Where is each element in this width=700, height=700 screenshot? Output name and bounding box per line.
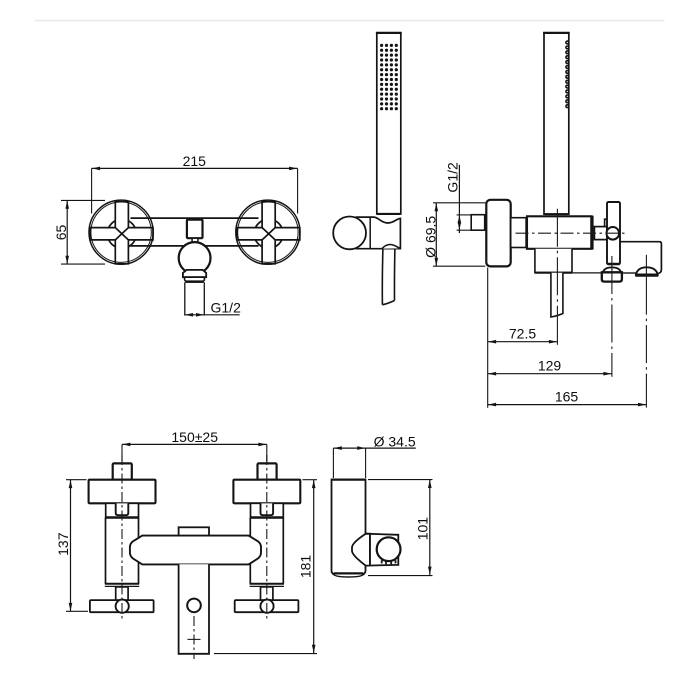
- svg-text:215: 215: [183, 153, 207, 169]
- svg-text:137: 137: [55, 532, 71, 556]
- svg-text:165: 165: [555, 389, 579, 405]
- svg-text:129: 129: [538, 358, 562, 374]
- svg-text:G1/2: G1/2: [211, 300, 242, 316]
- svg-text:Ø 69.5: Ø 69.5: [423, 216, 439, 258]
- svg-text:65: 65: [53, 225, 69, 241]
- svg-text:Ø 34.5: Ø 34.5: [374, 434, 416, 450]
- svg-text:G1/2: G1/2: [445, 162, 461, 193]
- svg-text:150±25: 150±25: [171, 429, 218, 445]
- svg-text:72.5: 72.5: [509, 326, 536, 342]
- svg-text:101: 101: [414, 517, 430, 541]
- svg-text:181: 181: [298, 555, 314, 579]
